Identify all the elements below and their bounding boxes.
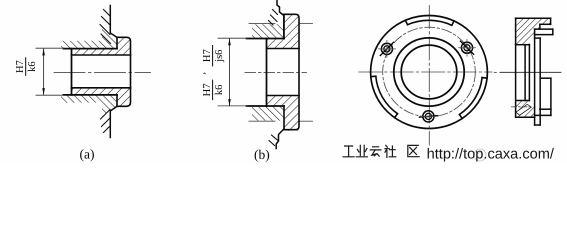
bottom-left segment [376,76,398,114]
hatch top polygon [516,18,551,45]
screw axis line bottom (b) [249,120,275,122]
sleeve flange hatch (a) [117,37,131,55]
centerline axis (a) [54,71,151,73]
bottom-right segment [459,78,482,115]
horizontal centerline continuation through side view [494,71,496,73]
svg-text:H7: H7 [202,49,213,62]
社 [385,145,396,157]
flange left face lines (a) [116,37,118,48]
svg-text:k6: k6 [27,61,38,72]
区 [408,145,419,156]
sleeve bore lines (a) [72,54,131,56]
sleeve left end face (a) [71,49,73,95]
housing hatch band bottom (a) [61,95,117,103]
svg-text:js6: js6 [214,50,225,63]
housing wall hatch ticks top (a) [100,10,111,44]
housing hatch corner wedge bottom (a) [102,103,117,117]
dimension line (b) [229,39,231,106]
svg-text:(b): (b) [254,147,270,162]
fit labels H7/k6, H7/js6 (b), rotated [197,45,225,99]
sleeve outline (a): flange plate with rounded right corners [117,37,131,106]
spigot circle [394,38,464,106]
screw axis line top (b) [249,22,275,24]
bolt circle (dash-dot) [383,27,476,117]
svg-text:http://top.caxa.com/: http://top.caxa.com/ [427,147,555,163]
housing wall break line top (b) [277,0,284,39]
dimension extension lines (b) [218,37,248,39]
notched rim arc segments (3) with radial steps [371,20,487,118]
housing wall line bottom (a) [110,106,117,137]
CJK: 工业云社区 (hand strokes) [343,145,419,157]
svg-text:,: , [197,72,208,75]
housing hatch band top (b) [252,24,284,38]
housing wall line top (a) [110,6,117,38]
vertical centerline [428,6,430,146]
sleeve OD lines (a) [64,48,118,50]
centerline axis (b) [245,71,307,73]
housing hatch corner wedge top (a) [102,27,117,41]
screw axis line bottom right of flange (b) [300,120,313,122]
housing wall break line bottom (b) [276,129,284,149]
housing wall hatch ticks bottom (b) [269,135,278,146]
outline top [516,18,553,125]
svg-text:H7: H7 [15,60,26,73]
spigot OD / housing bore lines (b) [247,38,285,40]
spigot end face (b) [266,39,268,107]
bore lines (b) [267,48,300,50]
part (b) flange hatch [284,14,299,48]
screw top-left [378,40,395,57]
工 [343,146,354,157]
fit label H7/k6 (a), rotated [15,58,38,76]
hatch bottom polygon [516,101,535,118]
业 [356,145,367,157]
housing wall hatch ticks bottom (a) [101,110,111,133]
svg-text:H7: H7 [202,83,213,96]
dimension line (a) [43,49,45,95]
outline bottom [516,78,551,125]
screw top-right [459,39,476,56]
housing hatch band top (a) [61,41,117,49]
horizontal centerline [359,71,492,73]
flange left face (b) [283,14,285,38]
faint logo ring [474,149,486,161]
screw bottom [419,111,437,122]
dimension extension lines (a) [36,47,64,49]
part (b) flange outline [284,14,299,129]
housing hatch band bottom (b) [252,106,284,121]
screw axis line top right of flange (b) [300,22,313,24]
white slot band through bottom hatch (screw hole) [516,104,531,115]
svg-text:(a): (a) [80,146,95,161]
outer circle [371,16,488,129]
top segment [408,20,452,25]
part (b) spigot wall hatch [267,39,285,49]
bore circle [401,45,457,99]
云 [370,147,381,156]
screw hole axis [512,106,532,108]
sleeve wall hatch (a) [72,49,118,55]
svg-text:k6: k6 [214,85,225,96]
housing wall hatch ticks top (b) [269,10,278,26]
